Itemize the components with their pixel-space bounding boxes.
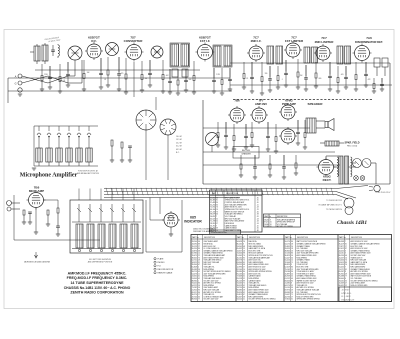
svg-text:LINE: 0.6 A: LINE: 0.6 A: [341, 292, 352, 295]
svg-text:7B6: 7B6: [234, 99, 240, 103]
svg-text:68-778: 68-778: [237, 260, 242, 262]
svg-text:62: 62: [243, 276, 245, 278]
svg-text:63-946: 63-946: [237, 262, 242, 264]
svg-text:95-388: 95-388: [339, 276, 344, 278]
label SPEAKER: [308, 102, 324, 106]
wire audio horizontal bus 1: [203, 127, 310, 129]
svg-text:56: 56: [198, 287, 200, 289]
svg-text:16.0 M: 16.0 M: [176, 136, 182, 138]
svg-text:7A6: 7A6: [366, 36, 372, 40]
label V4 7C7 2ND I.F.: [251, 36, 262, 44]
svg-text:68: 68: [243, 264, 245, 266]
tuning gang section C1C oscillator: [151, 46, 163, 58]
svg-text:71: 71: [291, 294, 293, 296]
svg-text:68: 68: [243, 246, 245, 248]
svg-text:SOCKET 400V 500V: SOCKET 400V 500V: [204, 299, 220, 301]
tube V7 7A6 discriminator detector: [353, 44, 372, 63]
svg-text:24: 24: [291, 273, 293, 275]
svg-text:98-383: 98-383: [237, 290, 242, 292]
svg-text:98-719: 98-719: [192, 271, 197, 273]
svg-text:72-266: 72-266: [285, 253, 290, 255]
svg-text:71-749: 71-749: [210, 221, 215, 223]
svg-text:50-174: 50-174: [285, 241, 290, 243]
table C condensers banner: [210, 230, 241, 234]
label 6U5 INDICATOR: [184, 216, 202, 224]
svg-text:46-104: 46-104: [210, 209, 215, 211]
volume control potentiometer: [206, 133, 219, 153]
label 6X5G RECT.: [323, 175, 332, 183]
wire RF band horizontal bus 3: [8, 90, 232, 92]
svg-text:DESCRIPTION: DESCRIPTION: [351, 237, 363, 239]
svg-text:80: 80: [291, 267, 293, 269]
svg-text:81: 81: [345, 244, 347, 246]
oscillator padder trimmers: [110, 140, 132, 162]
wire left edge vertical: [7, 78, 9, 103]
wire RF band horizontal bus 1: [35, 69, 200, 71]
wire IF band horizontal bus 4: [230, 62, 390, 64]
svg-text:43-983: 43-983: [285, 292, 290, 294]
IF transformer T1 first IF can: [170, 43, 190, 67]
svg-text:.25: .25: [246, 78, 248, 80]
ground at band switch: [32, 168, 36, 170]
tube V3 6SB7GT 1st IF amplifier: [196, 43, 215, 62]
svg-text:PLATE: PLATE: [158, 258, 165, 261]
svg-text:25: 25: [243, 248, 245, 250]
svg-text:DESCRIPTION: DESCRIPTION: [226, 193, 238, 195]
trimmer capacitor near wave trap: [51, 45, 55, 56]
svg-text:35: 35: [345, 280, 347, 282]
svg-text:44-455: 44-455: [339, 250, 344, 252]
svg-text:72-951: 72-951: [210, 207, 215, 209]
label Chassis 14B1: [337, 220, 367, 226]
tuning gang section C1B: [106, 43, 119, 56]
svg-text:12: 12: [198, 253, 200, 255]
tube V5 7C7 1st limiter: [284, 41, 302, 59]
svg-text:55: 55: [291, 276, 293, 278]
svg-text:60-507: 60-507: [210, 218, 215, 220]
svg-text:.93: .93: [257, 214, 259, 216]
svg-text:G: G: [15, 83, 17, 86]
svg-text:Microphone Amplifier: Microphone Amplifier: [20, 173, 78, 179]
svg-text:SPRING ELECTRO SWITCH VOL: SPRING ELECTRO SWITCH VOL: [225, 209, 250, 211]
wire audio bottom rail: [203, 183, 390, 185]
label V3 6SB7GT 1ST I.F.: [199, 36, 211, 44]
svg-text:18-553: 18-553: [237, 285, 242, 287]
svg-text:18: 18: [291, 248, 293, 250]
svg-text:DESCRIPTION: DESCRIPTION: [297, 237, 309, 239]
svg-text:47: 47: [345, 283, 347, 285]
svg-text:62: 62: [243, 292, 245, 294]
svg-text:93: 93: [198, 290, 200, 292]
svg-text:60: 60: [198, 296, 200, 298]
parts table B (small right): [264, 214, 301, 228]
svg-text:81-158: 81-158: [237, 278, 242, 280]
svg-text:VOLTAGE TAP USED IS 117 V.: VOLTAGE TAP USED IS 117 V.: [318, 204, 342, 207]
svg-text:2ND I.F.: 2ND I.F.: [251, 39, 262, 43]
tuning gang section C1A: [68, 46, 82, 60]
svg-text:.10: .10: [257, 225, 259, 227]
wire right edge B+ rail vertical: [389, 63, 391, 184]
remote control connector box: [146, 200, 182, 252]
svg-text:.1: .1: [281, 79, 282, 81]
svg-text:80-294: 80-294: [339, 255, 344, 257]
svg-text:31: 31: [291, 299, 293, 301]
svg-text:34-925: 34-925: [192, 262, 197, 264]
svg-text:ELECTRO OHM: ELECTRO OHM: [351, 246, 363, 248]
svg-text:88-946: 88-946: [192, 299, 197, 301]
svg-text:115 V 60 ~: 115 V 60 ~: [342, 290, 352, 292]
svg-text:87-472: 87-472: [264, 222, 269, 224]
svg-text:74-346: 74-346: [237, 253, 242, 255]
svg-text:680: 680: [319, 78, 322, 80]
svg-text:56: 56: [291, 255, 293, 257]
svg-text:16: 16: [270, 222, 272, 224]
svg-text:66: 66: [243, 287, 245, 289]
svg-text:INDICATOR: INDICATOR: [184, 219, 202, 223]
svg-text:72: 72: [243, 283, 245, 285]
svg-text:43-590: 43-590: [192, 244, 197, 246]
svg-text:470: 470: [121, 73, 124, 75]
svg-text:CONVERTER: CONVERTER: [124, 39, 144, 43]
svg-text:53-309: 53-309: [192, 278, 197, 280]
svg-text:SPRING ELECTRO SWITCH VOL: SPRING ELECTRO SWITCH VOL: [249, 255, 274, 257]
oscillator switch wafer S2 rear: [136, 110, 156, 130]
svg-text:.11: .11: [257, 204, 259, 206]
svg-text:SPRING ELECTRO SWITCH VOL: SPRING ELECTRO SWITCH VOL: [225, 200, 250, 202]
svg-text:57: 57: [216, 223, 218, 225]
svg-text:92-984: 92-984: [192, 253, 197, 255]
svg-text:64-174: 64-174: [285, 244, 290, 246]
svg-text:98-400: 98-400: [339, 278, 344, 280]
label A2 7F7 amp-inv: [255, 99, 267, 107]
svg-text:45-143: 45-143: [237, 280, 242, 282]
label SPKR FIELD: [345, 142, 360, 148]
svg-text:26-162: 26-162: [237, 257, 242, 259]
wire push button internal bus: [72, 222, 141, 249]
svg-text:63-224: 63-224: [237, 299, 242, 301]
svg-text:RECORD: RECORD: [242, 150, 251, 152]
svg-text:.43: .43: [257, 207, 259, 209]
svg-text:45-583: 45-583: [192, 269, 197, 271]
svg-text:14: 14: [345, 257, 347, 259]
svg-text:39-450: 39-450: [339, 264, 344, 266]
cable bundle to remote/power: [104, 188, 336, 198]
svg-text:.88: .88: [257, 230, 259, 232]
svg-text:SPRING ELECTRO SWITCH VOL: SPRING ELECTRO SWITCH VOL: [297, 294, 322, 296]
svg-text:28: 28: [243, 250, 245, 252]
label antenna coil (slanted): [44, 36, 61, 44]
svg-text:B.C.: B.C.: [176, 152, 180, 154]
svg-text:67: 67: [198, 264, 200, 266]
svg-text:SOCKET SPRING ELECTRO SHIELD: SOCKET SPRING ELECTRO SHIELD: [249, 299, 277, 301]
svg-text:76: 76: [216, 207, 218, 209]
svg-text:.01: .01: [104, 79, 106, 81]
svg-text:74-720: 74-720: [237, 287, 242, 289]
svg-text:34: 34: [291, 287, 293, 289]
svg-text:31.2 M: 31.2 M: [176, 146, 182, 148]
IF transformer T3: [267, 46, 283, 64]
svg-text:38-645: 38-645: [192, 257, 197, 259]
svg-text:83-606: 83-606: [285, 280, 290, 282]
wire mic amp section: [14, 195, 100, 240]
svg-text:21-385: 21-385: [285, 283, 290, 285]
svg-text:34: 34: [198, 269, 200, 271]
svg-text:13-876: 13-876: [192, 250, 197, 252]
svg-text:67-612: 67-612: [339, 248, 344, 250]
svg-text:.26: .26: [257, 211, 259, 213]
svg-text:35: 35: [291, 285, 293, 287]
mic amp grid resistor: [46, 210, 50, 226]
svg-text:20: 20: [243, 269, 245, 271]
pilot lamp 2: [360, 176, 365, 181]
label V5 7C7 1ST LIMITER: [285, 36, 304, 44]
svg-text:16: 16: [291, 292, 293, 294]
IF transformer T4: [304, 47, 318, 63]
svg-text:TO PHONO MOTOR: TO PHONO MOTOR: [326, 200, 342, 202]
svg-text:.55: .55: [257, 200, 259, 202]
audio band component strings: [216, 120, 307, 179]
label V1 6SD7GT R.F.: [88, 36, 100, 44]
table C pre-header rows: [193, 228, 216, 234]
svg-text:26-939: 26-939: [285, 276, 290, 278]
svg-text:.78: .78: [257, 209, 259, 211]
svg-text:DESCRIPTION: DESCRIPTION: [277, 216, 287, 218]
svg-text:51-365: 51-365: [237, 255, 242, 257]
svg-text:86: 86: [291, 241, 293, 243]
svg-text:66-820: 66-820: [285, 264, 290, 266]
svg-text:29: 29: [198, 260, 200, 262]
svg-text:52-751: 52-751: [192, 260, 197, 262]
record changer dashed box: [233, 147, 259, 159]
svg-text:12-446: 12-446: [285, 262, 290, 264]
svg-text:SPKR. FIELD: SPKR. FIELD: [345, 142, 360, 145]
band switch frame: [34, 126, 98, 166]
bottom title block: [64, 271, 131, 294]
svg-text:17: 17: [198, 294, 200, 296]
svg-text:AMP-INV: AMP-INV: [255, 102, 267, 106]
label V6 7C7 2ND LIMITER: [315, 36, 335, 44]
label A3 6V6G power amp: [282, 99, 296, 107]
svg-text:AND DEPRESSED POSITION: AND DEPRESSED POSITION: [88, 261, 113, 264]
svg-text:61-662: 61-662: [210, 197, 215, 199]
wire audio horizontal bus 2: [203, 151, 335, 153]
svg-text:35-419: 35-419: [339, 244, 344, 246]
svg-text:24-969: 24-969: [264, 224, 269, 226]
antenna terminal G: [15, 81, 22, 86]
svg-text:67: 67: [243, 294, 245, 296]
chassis ground note: [23, 252, 50, 264]
IF transformer T2: [213, 45, 232, 67]
svg-text:29-704: 29-704: [192, 296, 197, 298]
tube V2 7S7 converter: [125, 43, 144, 62]
svg-text:89: 89: [198, 244, 200, 246]
label V7 7A6 DISCRIMINATOR DET.: [355, 36, 383, 44]
main parts table (4 column groups): [191, 235, 392, 302]
svg-text:71-282: 71-282: [192, 287, 197, 289]
mic amp plate load: [56, 208, 60, 236]
svg-text:RECORD MOTOR: RECORD MOTOR: [158, 269, 174, 271]
svg-text:34: 34: [291, 271, 293, 273]
svg-text:96: 96: [198, 292, 200, 294]
svg-text:55-848: 55-848: [192, 267, 197, 269]
push button switch wafers: [76, 204, 138, 252]
svg-text:25-895: 25-895: [285, 246, 290, 248]
IF transformer T1 secondary trimmers: [172, 69, 188, 77]
svg-text:57-724: 57-724: [210, 211, 215, 213]
svg-text:ELECTRO OHM: ELECTRO OHM: [297, 267, 309, 269]
svg-text:96: 96: [198, 241, 200, 243]
svg-text:89: 89: [345, 262, 347, 264]
svg-text:68: 68: [198, 250, 200, 252]
wire antenna feed to RF grid: [75, 60, 82, 83]
svg-text:SOCKET SPRING ELECTRO SHIELD: SOCKET SPRING ELECTRO SHIELD: [351, 280, 379, 282]
svg-text:11-172: 11-172: [339, 269, 344, 271]
svg-text:RECT.: RECT.: [323, 178, 332, 182]
svg-text:SOCKET 400V 500V: SOCKET 400V 500V: [351, 255, 367, 257]
svg-text:AMP.MOD.I.F FREQUENCY 455KC.: AMP.MOD.I.F FREQUENCY 455KC.: [68, 271, 127, 275]
svg-text:66: 66: [345, 255, 347, 257]
svg-text:42: 42: [243, 285, 245, 287]
svg-text:55-426: 55-426: [285, 260, 290, 262]
svg-text:49: 49: [345, 273, 347, 275]
output transformer: [306, 118, 316, 133]
svg-text:25.2 M: 25.2 M: [176, 142, 182, 144]
svg-text:10: 10: [270, 226, 272, 228]
svg-text:70: 70: [198, 257, 200, 259]
svg-text:DESCRIPTION: DESCRIPTION: [204, 237, 216, 239]
svg-text:.56: .56: [257, 228, 259, 230]
svg-text:.24: .24: [257, 223, 259, 225]
svg-text:49.5 M: 49.5 M: [176, 149, 182, 151]
svg-text:98: 98: [243, 253, 245, 255]
svg-text:30-274: 30-274: [192, 294, 197, 296]
resistance values sub-box: [339, 287, 392, 302]
svg-text:65-992: 65-992: [237, 248, 242, 250]
svg-text:15: 15: [291, 269, 293, 271]
svg-text:SPRING MFD SPRING SP: SPRING MFD SPRING SP: [277, 222, 295, 224]
svg-text:89: 89: [198, 248, 200, 250]
svg-text:15-897: 15-897: [285, 273, 290, 275]
svg-text:61-455: 61-455: [339, 267, 344, 269]
svg-text:HEATERS 6.3V: HEATERS 6.3V: [341, 298, 355, 301]
wire oscillator section verticals: [134, 62, 168, 180]
svg-text:41-815: 41-815: [237, 294, 242, 296]
ballast lamp 1: [353, 159, 362, 168]
svg-text:SPRING MFD SPRING SPRING: SPRING MFD SPRING SPRING: [249, 271, 273, 273]
value labels sprinkled in RF band: [44, 72, 371, 82]
svg-text:94-222: 94-222: [192, 285, 197, 287]
svg-text:.05: .05: [63, 80, 65, 82]
svg-text:CHANGER: CHANGER: [241, 153, 251, 156]
svg-text:58: 58: [243, 290, 245, 292]
svg-text:54: 54: [291, 257, 293, 259]
svg-text:13: 13: [291, 250, 293, 252]
svg-text:27: 27: [198, 246, 200, 248]
svg-text:31: 31: [198, 262, 200, 264]
wire speaker leads: [316, 121, 325, 128]
svg-text:28-584: 28-584: [237, 271, 242, 273]
svg-text:28-204: 28-204: [192, 241, 197, 243]
svg-text:81-307: 81-307: [237, 296, 242, 298]
svg-text:.20: .20: [257, 202, 259, 204]
svg-text:65: 65: [243, 262, 245, 264]
svg-text:12-993: 12-993: [237, 267, 242, 269]
svg-text:87-976: 87-976: [285, 290, 290, 292]
svg-text:FREQ.MOD.I.F FREQUENCY 8.3MC.: FREQ.MOD.I.F FREQUENCY 8.3MC.: [67, 276, 128, 280]
power transformer: [337, 156, 352, 184]
svg-text:78-926: 78-926: [237, 292, 242, 294]
wire RF band horizontal bus 2: [8, 77, 230, 79]
svg-text:54-473: 54-473: [192, 273, 197, 275]
svg-text:30: 30: [216, 204, 218, 206]
svg-text:77: 77: [345, 276, 347, 278]
svg-text:58-252: 58-252: [264, 219, 269, 221]
svg-text:70: 70: [345, 260, 347, 262]
svg-text:42: 42: [243, 273, 245, 275]
svg-text:.65: .65: [257, 197, 259, 199]
svg-text:80-431: 80-431: [339, 285, 344, 287]
svg-text:65-267: 65-267: [339, 271, 344, 273]
svg-text:69: 69: [291, 278, 293, 280]
power plug: [369, 185, 391, 194]
svg-text:P.U.: P.U.: [158, 266, 162, 268]
wire audio horizontal bus 3: [203, 164, 340, 166]
speaker cone: [325, 119, 334, 131]
phono motor circles: [344, 198, 354, 215]
svg-text:SOCKET 400V 500V: SOCKET 400V 500V: [204, 280, 220, 282]
tube A3 6V6G power amp 1: [279, 103, 297, 121]
svg-text:ZENITH RADIO CORPORATION: ZENITH RADIO CORPORATION: [70, 291, 124, 295]
svg-text:30-823: 30-823: [285, 255, 290, 257]
tube A2 7F7 phase inverter: [250, 106, 268, 124]
svg-text:29: 29: [291, 290, 293, 292]
svg-text:77: 77: [198, 299, 200, 301]
svg-text:71-595: 71-595: [264, 226, 269, 228]
svg-text:23-332: 23-332: [192, 276, 197, 278]
svg-text:19.5 M: 19.5 M: [176, 139, 182, 141]
wire antenna transposed leads: [22, 76, 75, 83]
push button switch assembly box: [70, 200, 143, 253]
svg-text:80: 80: [243, 271, 245, 273]
svg-text:18-313: 18-313: [210, 223, 215, 225]
svg-text:52: 52: [216, 218, 218, 220]
svg-text:86: 86: [291, 253, 293, 255]
svg-text:.005: .005: [340, 74, 343, 76]
svg-text:CONDENSERS cont.: CONDENSERS cont.: [211, 231, 228, 234]
svg-text:69: 69: [216, 228, 218, 230]
svg-text:R.F.: R.F.: [91, 39, 97, 43]
svg-text:26: 26: [345, 264, 347, 266]
svg-text:61-252: 61-252: [285, 278, 290, 280]
svg-text:73: 73: [216, 211, 218, 213]
svg-text:80-385: 80-385: [210, 200, 215, 202]
svg-text:FIELD 1050Ω: FIELD 1050Ω: [347, 146, 358, 148]
svg-text:TO PHONO SWITCH: TO PHONO SWITCH: [326, 209, 343, 211]
svg-text:28-359: 28-359: [285, 248, 290, 250]
svg-text:94-458: 94-458: [237, 241, 242, 243]
oscillator switch wafer S2 front: [160, 119, 176, 135]
svg-text:MFD 200V: MFD 200V: [204, 264, 213, 266]
ground terminal: [18, 88, 22, 96]
svg-text:1ST LIMITER: 1ST LIMITER: [285, 39, 304, 43]
svg-text:39-304: 39-304: [192, 264, 197, 266]
svg-text:23-186: 23-186: [285, 271, 290, 273]
svg-text:28: 28: [291, 244, 293, 246]
tube V1 6SD7GT RF amplifier: [85, 42, 103, 60]
svg-text:51: 51: [243, 299, 245, 301]
push button note: [88, 259, 113, 264]
svg-text:70: 70: [243, 255, 245, 257]
